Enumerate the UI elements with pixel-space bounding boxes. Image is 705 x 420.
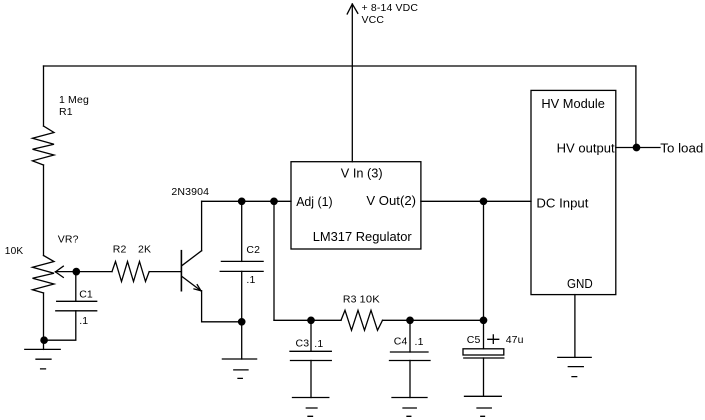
wire HV GND stem — [574, 295, 576, 358]
capacitor C1 — [57, 300, 97, 302]
svg-text:1 Meg: 1 Meg — [59, 94, 89, 106]
wire bottom rail left — [274, 319, 341, 321]
potentiometer VR? body — [33, 256, 55, 294]
op box LM317 U1 — [291, 162, 421, 249]
wire C2 bottom to ground — [241, 271, 243, 359]
node wiper junction — [73, 268, 79, 274]
svg-text:To load: To load — [660, 141, 703, 156]
wire V Out tap down — [483, 201, 485, 320]
wire left rail down to R1 — [43, 66, 45, 126]
wire right rail down — [635, 66, 637, 148]
svg-text:R1: R1 — [59, 106, 73, 118]
node C5 — [480, 317, 486, 323]
svg-text:10K: 10K — [360, 294, 380, 306]
capacitor C2 — [221, 260, 263, 262]
node C3 — [308, 317, 314, 323]
wire R1 to VR — [43, 165, 45, 256]
wire R2 to base — [149, 271, 181, 273]
node Adj tap — [271, 198, 277, 204]
wire C5 to ground — [483, 358, 485, 396]
node HV output — [633, 144, 639, 150]
wire C4 stem — [409, 320, 411, 352]
svg-text:C1: C1 — [79, 289, 93, 301]
wire emitter down and right — [202, 291, 242, 322]
ground (C4) — [392, 398, 427, 417]
potentiometer wiper arrow — [55, 266, 63, 272]
ground (C2) — [222, 359, 256, 378]
svg-text:+ 8-14 VDC: + 8-14 VDC — [362, 2, 419, 14]
wire collector up — [201, 201, 203, 250]
ground (left) — [25, 349, 60, 369]
ground (C5) — [465, 396, 502, 416]
svg-text:V In (3): V In (3) — [341, 166, 383, 181]
svg-text:LM317 Regulator: LM317 Regulator — [313, 229, 413, 244]
node emitter/C2 — [239, 319, 245, 325]
wire wiper to R2 — [55, 271, 112, 273]
capacitor C4 — [391, 351, 429, 353]
svg-text:Adj (1): Adj (1) — [296, 194, 332, 209]
wire wiper junction to C1 — [75, 272, 77, 302]
svg-text:VCC: VCC — [362, 14, 385, 26]
ground (C3) — [293, 398, 329, 417]
wire C4 to ground — [409, 361, 411, 398]
wire C3 to ground — [310, 361, 312, 398]
svg-text:C5: C5 — [467, 334, 481, 346]
svg-text:.1: .1 — [246, 274, 255, 286]
C5 plus sign — [488, 335, 499, 344]
resistor R3 — [341, 310, 383, 330]
svg-text:.1: .1 — [314, 338, 323, 350]
node V Out tap — [480, 198, 486, 204]
svg-text:HV Module: HV Module — [541, 96, 605, 111]
wire VR bottom to ground node — [43, 293, 45, 349]
wire V Out to DC Input — [421, 200, 531, 202]
svg-text:C2: C2 — [246, 244, 260, 256]
svg-text:HV output: HV output — [557, 141, 615, 156]
svg-text:.1: .1 — [415, 336, 424, 348]
wire VCC stem — [351, 4, 353, 162]
wire C2 top — [241, 201, 243, 261]
wire top rail — [44, 65, 636, 67]
capacitor C3 — [290, 350, 331, 352]
wire bottom rail right — [383, 319, 484, 321]
node collector/C2 — [239, 198, 245, 204]
wire Adj tap down — [273, 201, 275, 320]
svg-text:GND: GND — [567, 276, 593, 291]
wire C5 stem — [483, 320, 485, 349]
svg-text:R2: R2 — [113, 244, 127, 256]
ground (HV) — [558, 357, 591, 376]
transistor Q1 2N3904 — [180, 251, 182, 291]
node ground junction — [41, 337, 47, 343]
capacitor C5 plus plate — [463, 349, 504, 355]
svg-text:DC Input: DC Input — [536, 195, 588, 210]
wire C3 stem — [310, 320, 312, 351]
wire collector rail to LM317 Adj — [202, 200, 291, 202]
resistor R2 — [112, 262, 149, 282]
node C4 — [407, 317, 413, 323]
svg-text:VR?: VR? — [58, 234, 79, 246]
svg-text:C4: C4 — [394, 336, 408, 348]
svg-text:2N3904: 2N3904 — [171, 186, 209, 198]
svg-text:C3: C3 — [296, 337, 310, 349]
svg-text:2K: 2K — [138, 244, 151, 256]
wire C1 to ground node — [44, 311, 76, 340]
svg-text:V Out(2): V Out(2) — [366, 193, 416, 208]
VCC arrow — [347, 4, 352, 14]
wire HV output to load — [616, 147, 660, 149]
svg-text:R3: R3 — [343, 294, 357, 306]
capacitor C5 bottom plate — [464, 357, 504, 359]
box HV Module — [531, 90, 616, 294]
svg-text:10K: 10K — [5, 245, 24, 257]
svg-text:47u: 47u — [506, 334, 524, 346]
svg-text:.1: .1 — [79, 315, 88, 327]
resistor R1 — [33, 126, 55, 165]
